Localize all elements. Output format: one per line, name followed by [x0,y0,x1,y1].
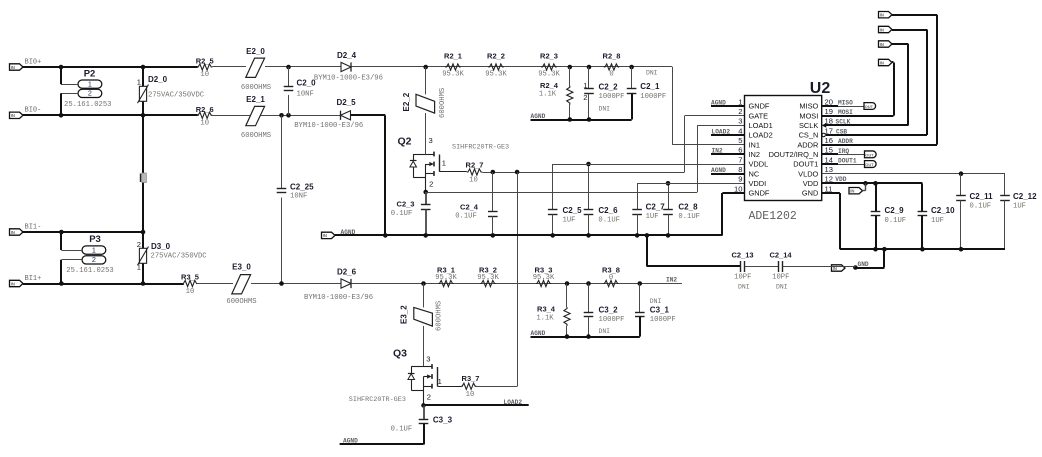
svg-text:95.3K: 95.3K [435,274,457,282]
svg-text:E2_1: E2_1 [246,95,265,104]
svg-text:1UF: 1UF [563,217,576,225]
ferrite bead E2_0 [246,58,265,77]
svg-text:0.1UF: 0.1UF [885,217,907,225]
svg-text:20: 20 [825,97,833,106]
node E3_2 top [421,281,426,286]
svg-text:C2_1: C2_1 [640,82,660,91]
svg-text:10: 10 [186,288,195,296]
svg-text:19: 19 [825,107,833,116]
svg-text:R2_6: R2_6 [196,105,214,114]
svg-text:DNI: DNI [650,298,662,305]
svg-text:3: 3 [426,355,430,364]
svg-text:D3_0: D3_0 [151,242,171,251]
resistor R3_4 [566,284,568,308]
svg-text:C2_6: C2_6 [598,206,618,215]
svg-text:GNDF: GNDF [749,189,770,198]
net tie symbol [142,173,147,183]
ferrite bead E3_2 [414,307,433,326]
svg-text:BI0+: BI0+ [25,59,42,67]
svg-text:1000PF: 1000PF [640,93,666,101]
node D3_0 bottom [141,281,146,286]
node C2_10 bottom [920,247,925,252]
node C2_8 top [666,181,671,186]
svg-text:2: 2 [92,255,96,264]
svg-text:275VAC/350VDC: 275VAC/350VDC [151,253,208,261]
node C2_11 top [959,171,964,176]
svg-text:E3_2: E3_2 [400,305,409,324]
svg-text:E2_2: E2_2 [402,92,411,111]
wire P3 pin1 to BI1- [61,250,82,252]
svg-text:AGND: AGND [343,437,358,444]
svg-text:GND: GND [802,189,818,198]
svg-text:95.3K: 95.3K [533,274,555,282]
node P3-2 junction [59,281,64,286]
node C2_6 bottom [586,233,591,238]
svg-text:C2_25: C2_25 [290,183,314,192]
svg-text:1.1K: 1.1K [536,314,554,322]
svg-text:DNI: DNI [776,284,788,291]
node D2_0 bottom [141,113,146,118]
svg-text:LOAD1: LOAD1 [749,121,773,130]
node P3-1 junction [59,230,64,235]
resistor R3_2 [480,280,496,286]
svg-text:DNI: DNI [599,328,611,335]
ferrite bead E2_2 wires [425,67,427,94]
svg-text:R3_2: R3_2 [479,265,497,274]
wire [212,115,341,117]
port CSB (IN) [879,26,893,32]
svg-text:7: 7 [738,155,742,164]
svg-text:C2_7: C2_7 [646,202,666,211]
svg-text:C2_4: C2_4 [460,203,479,212]
svg-text:SIHFRC20TR-GE3: SIHFRC20TR-GE3 [452,143,509,151]
wire R3_7 vertical [517,172,519,387]
svg-text:600OHMS: 600OHMS [241,84,271,92]
svg-text:IN2: IN2 [666,277,677,284]
U2 pin10 GNDF wire [722,192,745,194]
port MOSI (IN) [879,59,893,65]
node GND port junction [853,265,858,270]
svg-text:C2_11: C2_11 [970,192,994,201]
ferrite bead E3_2 wires [423,284,425,308]
wire [251,283,341,285]
resistor R2_8 [604,64,620,70]
svg-text:ADE1202: ADE1202 [749,210,797,223]
wire P2 pin1 to BI0+ [61,84,78,86]
svg-text:10NF: 10NF [297,91,314,99]
svg-text:10: 10 [734,184,742,193]
node R3_4 top [565,281,570,286]
wire [265,66,341,68]
svg-text:IN: IN [323,233,327,238]
U2 pin17 CS_N wire [826,134,927,136]
svg-text:4: 4 [738,126,742,135]
svg-text:DOUT1: DOUT1 [838,157,857,164]
svg-text:1UF: 1UF [646,213,659,221]
resistor R3_8 [603,280,619,286]
wire C3_3 to AGND [423,424,425,445]
resistor R2_4 [569,67,571,86]
svg-text:E2_0: E2_0 [246,47,265,56]
svg-text:P2: P2 [84,69,96,80]
wire AGND to C2_13 [646,235,648,266]
capacitor C3_3 [423,405,425,419]
svg-text:BI0-: BI0- [25,107,42,115]
wire IN1 net [672,67,674,145]
wire [198,283,233,285]
ferrite bead E2_2 [416,94,435,113]
svg-text:600OHMS: 600OHMS [226,298,256,306]
svg-text:2: 2 [583,93,587,102]
svg-text:0.1UF: 0.1UF [678,213,700,221]
svg-text:SCLK: SCLK [836,119,851,126]
port BI1+ (IN) [10,280,24,286]
svg-text:R3_1: R3_1 [437,265,455,274]
U2 pin13 VLDO wire [822,173,1005,175]
node P2-2 junction [59,113,64,118]
svg-text:2: 2 [429,180,433,189]
svg-text:R3_4: R3_4 [537,305,556,314]
port ADDR (IN) [879,12,893,18]
svg-text:OUT: OUT [865,104,874,109]
svg-text:C3_2: C3_2 [599,306,619,315]
svg-text:U2: U2 [810,80,831,97]
svg-text:2: 2 [137,240,141,249]
svg-text:IN: IN [850,189,854,194]
svg-text:10PF: 10PF [772,274,789,282]
wire [352,283,683,285]
resistor R3_7 [461,383,477,389]
node GND branch [882,247,887,252]
resistor R3_1 [438,280,454,286]
svg-text:AGND: AGND [711,99,726,106]
node C2_2 top [587,65,592,70]
node VDD port junction [863,181,868,186]
svg-text:C2_10: C2_10 [931,206,955,215]
varistor D3_0 [139,248,146,263]
node C3_2 bottom [586,334,591,339]
svg-text:IN: IN [11,65,15,70]
svg-text:IN: IN [880,42,884,47]
svg-text:LOAD2: LOAD2 [712,128,731,135]
wire P3 pin2 to BI1+ [61,259,82,261]
svg-text:IN1: IN1 [749,140,761,149]
capacitor C2_2 [588,67,590,89]
svg-text:D2_0: D2_0 [148,75,168,84]
svg-text:NC: NC [749,169,760,178]
node C2_7 bottom [635,233,640,238]
varistor D2_0 [139,86,146,101]
port VDD (IN) [849,188,863,194]
node C2_0 bottom [286,113,291,118]
node C3_2 top [586,281,591,286]
svg-text:10PF: 10PF [734,274,751,282]
node R3_4 bottom [565,334,570,339]
svg-text:14: 14 [825,155,833,164]
svg-text:BI1-: BI1- [25,223,42,231]
svg-text:1: 1 [92,245,96,254]
svg-text:R2_8: R2_8 [603,51,621,60]
svg-text:DOUT2/IRQ_N: DOUT2/IRQ_N [769,150,819,159]
svg-text:0: 0 [609,70,613,78]
U2 pin4 LOAD2 stub [711,134,745,136]
svg-text:R3_7: R3_7 [462,374,480,383]
resistor R2_6 [197,112,212,118]
svg-text:GATE: GATE [749,111,769,120]
svg-text:9: 9 [738,175,742,184]
svg-text:95.3K: 95.3K [538,70,560,78]
capacitor C2_14 [778,261,780,272]
svg-text:3: 3 [428,136,432,145]
svg-text:17: 17 [825,126,833,135]
wire BI0- rail [23,114,198,116]
svg-text:1: 1 [137,263,141,272]
svg-text:Q2: Q2 [397,136,411,148]
svg-text:2: 2 [427,393,431,402]
wire LOAD2 net [424,404,529,406]
svg-text:D2_5: D2_5 [336,98,356,107]
port BI0+ (IN) [10,64,24,70]
node C2_9 top [873,181,878,186]
svg-text:1UF: 1UF [931,217,944,225]
svg-text:IN: IN [880,13,884,18]
svg-text:1: 1 [137,78,141,87]
node P2-1 junction [59,65,64,70]
wire GND branch [883,249,885,267]
svg-text:8: 8 [738,165,742,174]
node C2_11 bottom [959,247,964,252]
svg-text:5: 5 [738,136,742,145]
svg-text:R2_5: R2_5 [196,57,214,66]
svg-text:VDD: VDD [835,176,846,183]
svg-text:IN: IN [11,281,15,286]
U2 pin20 MISO wire [822,105,838,107]
svg-text:ADDR: ADDR [797,140,818,149]
svg-text:95.3K: 95.3K [485,70,507,78]
svg-text:C2_5: C2_5 [563,206,583,215]
capacitor C2_5 [552,164,554,210]
svg-text:600OHMS: 600OHMS [439,88,447,118]
svg-text:1000PF: 1000PF [650,316,676,324]
svg-text:0: 0 [609,274,613,282]
node C2_25 top [279,113,284,118]
svg-text:C3_1: C3_1 [650,306,670,315]
capacitor C2_11 [960,174,962,196]
U2 pin1 AGND stub [711,105,745,107]
svg-text:BI1+: BI1+ [25,275,42,283]
wire varistor column [142,67,144,86]
node D3_0 top [141,230,146,235]
wire BI0+ rail [23,66,198,68]
capacitor C2_4 [492,172,494,212]
svg-text:10: 10 [466,391,475,399]
svg-text:R3_3: R3_3 [535,265,553,274]
svg-text:BYM10-1000-E3/96: BYM10-1000-E3/96 [314,74,383,82]
U2 pin16 ADDR wire [822,144,937,146]
node C2_3 bottom [423,233,428,238]
svg-text:10: 10 [200,71,209,79]
U2 pin12 VDD wire [822,182,923,184]
svg-text:BYM10-1000-E3/96: BYM10-1000-E3/96 [294,122,363,130]
svg-text:0.1UF: 0.1UF [455,213,477,221]
svg-text:OUT: OUT [865,152,874,157]
U2 pin6 IN2 stub [711,153,745,155]
svg-text:CS_N: CS_N [799,131,819,140]
svg-text:1.1K: 1.1K [539,91,557,99]
port DOUT1 (OUT) [865,161,877,168]
svg-text:1: 1 [583,81,587,90]
ferrite bead E3_0 [232,275,251,294]
svg-text:0.1UF: 0.1UF [598,217,620,225]
wire BI1- rail [23,231,143,233]
U2 pin19 MOSI wire [822,115,894,117]
svg-text:GND: GND [858,261,869,268]
node C2_8 bottom [666,233,671,238]
svg-text:1UF: 1UF [1013,203,1026,211]
svg-text:R2_7: R2_7 [466,160,484,169]
svg-text:0.1UF: 0.1UF [391,210,413,218]
port MISO (OUT) [864,103,876,110]
svg-text:1000PF: 1000PF [599,93,625,101]
node D2_5-AGND [383,233,388,238]
svg-text:13: 13 [825,165,833,174]
node D2_0 top [141,65,146,70]
svg-text:IN2: IN2 [712,148,723,155]
svg-text:95.3K: 95.3K [442,70,464,78]
node C2_4 top [491,170,496,175]
svg-text:1: 1 [738,97,742,106]
node C2_13 branch [645,233,650,238]
node C2_5 bottom [550,233,555,238]
wire VDDI net [637,183,745,185]
svg-text:R2_4: R2_4 [540,81,559,90]
svg-text:MOSI: MOSI [799,111,818,120]
node C3_1 top [638,281,643,286]
svg-text:AGND: AGND [531,330,546,337]
wire GATE net [482,172,684,174]
capacitor C3_2 [588,284,590,313]
wire AGND rail [335,234,722,236]
resistor R2_7 [467,169,483,175]
svg-text:IN: IN [880,27,884,32]
svg-text:C2_9: C2_9 [885,206,905,215]
svg-text:C2_2: C2_2 [599,83,619,92]
capacitor C2_9 [875,183,877,211]
svg-text:1: 1 [442,158,446,167]
port IRQ (OUT) [865,151,877,158]
U2 pin11 GND wire [822,192,840,194]
diode D2_5 [341,111,351,120]
U2 pin18 SCLK wire [825,124,908,126]
svg-text:R3_8: R3_8 [602,265,620,274]
svg-text:VDDL: VDDL [749,160,769,169]
U2 pin14 DOUT1 wire [822,163,838,165]
wire GND rail [840,248,1005,250]
node C2_25 bottom [279,281,284,286]
svg-text:IN: IN [880,60,884,65]
capacitor C2_7 [637,183,639,210]
svg-text:600OHMS: 600OHMS [436,301,444,331]
svg-text:OUT: OUT [865,162,874,167]
svg-text:E3_0: E3_0 [232,263,251,272]
capacitor C2_12 [1004,174,1006,196]
svg-text:2: 2 [738,107,742,116]
port SCLK (IN) [879,41,893,47]
svg-text:R2_1: R2_1 [444,51,462,60]
svg-text:D2_6: D2_6 [337,267,357,276]
svg-text:C2_12: C2_12 [1013,192,1037,201]
svg-text:DNI: DNI [646,70,658,77]
wire [783,266,856,268]
svg-text:1000PF: 1000PF [599,316,625,324]
svg-text:VLDO: VLDO [798,169,818,178]
svg-text:ADDR: ADDR [838,138,853,145]
resistor R3_5 [182,280,197,286]
node R2_4 bottom [568,117,573,122]
svg-text:25.161.0253: 25.161.0253 [64,101,111,109]
node E2_2 top [423,65,428,70]
node R3_7 branch [515,170,520,175]
svg-text:R2_2: R2_2 [487,51,505,60]
svg-text:Q3: Q3 [393,348,407,360]
svg-text:DNI: DNI [738,284,750,291]
svg-text:BYM10-1000-E3/96: BYM10-1000-E3/96 [304,294,373,302]
svg-text:IRQ: IRQ [838,148,849,155]
wire VDDL net [553,164,745,166]
svg-text:IN: IN [11,113,15,118]
svg-text:P3: P3 [89,234,101,245]
node R2_4 top [568,65,573,70]
svg-text:VDD: VDD [803,179,819,188]
svg-text:IN2: IN2 [749,150,761,159]
diode D2_6 [341,279,351,288]
svg-text:600OHMS: 600OHMS [241,132,271,140]
port AGND (IN) [322,232,336,238]
svg-text:C3_3: C3_3 [433,416,453,425]
svg-text:MOSI: MOSI [838,109,853,116]
svg-text:DNI: DNI [599,105,611,112]
port GND (IN) [832,265,846,271]
capacitor C2_25 [281,115,283,188]
svg-text:10: 10 [469,176,478,184]
svg-text:DOUT1: DOUT1 [793,160,818,169]
svg-text:1: 1 [438,377,442,386]
svg-text:R2_3: R2_3 [540,51,558,60]
svg-text:LOAD2: LOAD2 [749,131,773,140]
svg-text:GNDF: GNDF [749,102,770,111]
node Q2 source [423,190,428,195]
svg-text:1: 1 [88,80,92,89]
wire GATE to U2 pin2 [685,115,745,117]
svg-text:25.161.0253: 25.161.0253 [66,267,113,275]
wire BI1+ rail [23,283,184,285]
svg-text:CSB: CSB [836,128,847,135]
resistor R3_3 [536,280,552,286]
U2 pin8 AGND stub [711,173,745,175]
svg-text:2: 2 [88,89,92,98]
svg-text:MISO: MISO [838,99,853,106]
capacitor C2_1 [631,67,633,89]
svg-text:R3_5: R3_5 [181,272,199,281]
svg-text:95.3K: 95.3K [477,274,499,282]
svg-text:C2_3: C2_3 [397,200,415,209]
wire R3_7 to GATE vertical [476,386,517,388]
capacitor C2_0 [288,67,290,86]
svg-text:SIHFRC20TR-GE3: SIHFRC20TR-GE3 [349,396,406,404]
svg-text:C2_14: C2_14 [769,250,792,259]
U2 pin15 IRQ wire [822,153,838,155]
wire D2_5 to AGND [351,114,386,116]
